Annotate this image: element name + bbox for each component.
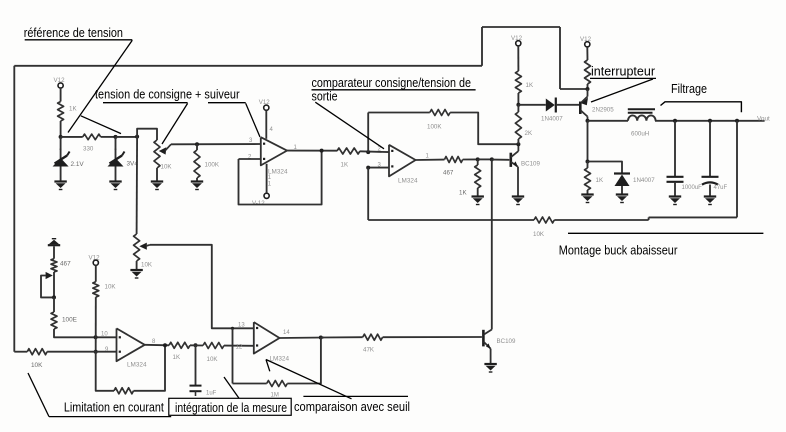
label limitation (64, 401, 164, 415)
wire resistor to emitter node (587, 84, 589, 89)
node R (52, 295, 56, 299)
label Filtrage (671, 82, 707, 96)
node C pot junction (135, 135, 139, 139)
wire hysteresis bottom right (287, 338, 321, 384)
node W hysteresis tap (231, 327, 234, 330)
wire 10K to U4A - (224, 345, 254, 347)
wire U1A output (287, 150, 337, 152)
label sortie (312, 89, 338, 103)
wire D1 to Q2 base (557, 104, 579, 106)
svg-text:1K: 1K (596, 177, 604, 184)
bracket Filtrage (661, 102, 742, 113)
wire V12 to R 1K (60, 88, 62, 102)
wire P2 wiper to U4A + (150, 245, 254, 328)
label Vout (757, 116, 770, 123)
wire 1K to 10K (190, 344, 203, 346)
wire node Q to D2 (588, 162, 623, 174)
resistor 330 (83, 134, 101, 152)
wire feedback to output (134, 345, 166, 391)
svg-text:comparaison avec seuil: comparaison avec seuil (294, 400, 410, 414)
wire 330 to node B (101, 136, 116, 138)
ground 1K pulldown (472, 197, 484, 205)
wire 100K to ground (196, 178, 198, 182)
svg-text:1K: 1K (459, 190, 467, 197)
wire U2A + to sense line (367, 168, 369, 220)
capacitor C2 47uF (702, 177, 728, 191)
wire V12 to 10K (95, 265, 97, 281)
wire D2 to ground (621, 186, 623, 195)
svg-text:1000uF: 1000uF (682, 185, 703, 191)
op-amp U4A LM324 (254, 322, 290, 362)
svg-text:BC109: BC109 (497, 338, 516, 345)
underline interrupteur (590, 77, 656, 79)
node G U2A + input (366, 166, 370, 170)
resistor 1K U1A-U2A (337, 148, 360, 169)
node O cap2 (708, 119, 712, 123)
rheostat 467 (51, 259, 71, 272)
resistor emitter buck (585, 60, 591, 84)
wire switch node to inductor (588, 120, 629, 122)
pin 1 label U2A (426, 154, 430, 160)
wire 47K to Q3 base (383, 336, 482, 338)
pointer reference stem (68, 40, 132, 132)
svg-text:2.1V: 2.1V (71, 161, 85, 168)
diode D2 1N4007 (614, 174, 655, 187)
node P output sense (735, 119, 739, 123)
pin 10 label U3A (101, 332, 108, 338)
ground 1K freewheel (581, 195, 593, 203)
label tension de consigne (95, 88, 240, 102)
wire sense down (736, 121, 738, 218)
underline limitation (49, 416, 171, 418)
transistor Q2 emitter (581, 89, 588, 105)
wire rail to C2 (709, 121, 711, 176)
label reference de tension (24, 26, 123, 40)
wire top rail notch up (481, 27, 483, 66)
pin 3 label U1A (249, 138, 253, 144)
svg-text:LM324: LM324 (270, 356, 290, 363)
resistor 1K integrator (169, 342, 190, 361)
potentiometer P1 10K (154, 140, 172, 171)
ground Q1 emitter (512, 197, 524, 205)
svg-text:Vout: Vout (757, 116, 770, 123)
wire notch to emitter node (560, 88, 588, 90)
svg-text:sortie: sortie (312, 89, 338, 103)
svg-text:1K: 1K (526, 82, 534, 89)
svg-text:47uF: 47uF (714, 185, 728, 191)
node E U1A output (320, 149, 324, 153)
transistor Q3 emitter (484, 342, 491, 364)
wire sense left upper (649, 216, 737, 218)
node X U4A output (319, 336, 323, 340)
wire node I to Q1 base (492, 159, 510, 161)
rheostat wiper arrow (46, 272, 53, 279)
ground P1 (151, 182, 163, 190)
wire node H to 1K (477, 159, 479, 165)
underline suiveur (208, 102, 246, 104)
pin 2 label U1A (248, 155, 252, 161)
ground zener1 (54, 182, 66, 190)
svg-text:100K: 100K (427, 124, 442, 131)
label integration (175, 401, 287, 415)
rheostat loop wire (41, 276, 54, 298)
pointer interrupteur (591, 79, 653, 102)
wire ground to rheostat (53, 246, 55, 258)
ground Q3 emitter (484, 364, 496, 372)
resistor 10K integrator (203, 343, 224, 364)
transistor Q3 collector (484, 330, 492, 335)
node S (94, 335, 98, 339)
transistor Q1 collector (511, 144, 519, 157)
wire 1K to ground (477, 188, 479, 197)
resistor 1K buck drive (515, 71, 534, 93)
pin 12 label U4A (236, 345, 243, 351)
pin 13 label U4A (238, 322, 245, 328)
pointer comparateur (315, 102, 384, 149)
wire node C up-over to pot P1 (137, 129, 157, 140)
label montage buck (559, 243, 678, 257)
svg-text:2N2905: 2N2905 (592, 107, 614, 114)
pin 9 label U3A (105, 347, 109, 353)
wire sense step (648, 217, 650, 220)
svg-text:1M: 1M (271, 393, 279, 399)
wire top rail notch horizontal (482, 26, 560, 28)
resistor 467 (443, 157, 463, 177)
wire node K to 2K (517, 105, 519, 112)
svg-text:600uH: 600uH (631, 131, 649, 138)
wire 10K to U3A - (47, 351, 116, 353)
zener diode 3V4 (108, 149, 139, 168)
wire output rail (655, 120, 765, 122)
wire 1K to U2A - (360, 150, 389, 153)
potentiometer P2 10K (134, 234, 153, 269)
svg-text:comparateur consigne/tension d: comparateur consigne/tension de (312, 76, 472, 90)
pointer comparaison short (266, 360, 270, 372)
box integration (169, 398, 291, 415)
pin 1 label U1A (294, 145, 298, 151)
wire U1A bottom to V-12 (267, 164, 272, 193)
svg-text:12: 12 (236, 345, 243, 351)
wire 2K to node J (517, 139, 519, 144)
wire V12 to emitter resistor (586, 47, 588, 60)
resistor 10K limit (93, 282, 117, 297)
pin 14 label U4A (283, 330, 290, 336)
wire 10K to node S and node T (95, 297, 97, 352)
resistor feedback U3A (114, 388, 134, 394)
wiper arrow P2 (139, 243, 150, 250)
svg-text:10K: 10K (105, 284, 117, 291)
wire hysteresis down (232, 328, 234, 383)
wire 100K to corner (450, 113, 518, 145)
svg-text:V12: V12 (580, 36, 592, 43)
node F U2A - input (366, 150, 370, 154)
underline consigne (103, 102, 188, 104)
svg-text:10K: 10K (31, 362, 43, 369)
node D 100K tap (195, 142, 199, 146)
overline montage buck (568, 232, 763, 234)
wire node H to node I (478, 158, 492, 160)
label comparateur (312, 76, 472, 90)
svg-text:467: 467 (443, 170, 454, 177)
wire U3A feedback (96, 352, 114, 391)
wire zener1 to ground (60, 167, 62, 182)
pointer integration (224, 377, 239, 398)
inductor 600uH core bars (628, 109, 655, 113)
inductor 600uH coil (628, 115, 656, 137)
node I (490, 157, 494, 161)
node U output U3A (163, 343, 167, 347)
pin 2 label U2A (378, 147, 382, 153)
resistor 1K freewheel (585, 168, 604, 190)
power terminal V12 switch (580, 36, 592, 47)
wire top rail notch down to switch emitter (559, 27, 561, 89)
svg-text:V12: V12 (54, 77, 66, 84)
power terminal V12 buck drive (511, 35, 523, 46)
node Q freewheel (586, 160, 590, 164)
wire 100K feedback up (367, 113, 369, 153)
svg-text:V-12: V-12 (252, 200, 265, 207)
resistor 10K input (27, 349, 47, 369)
node A zener1 top (59, 135, 63, 139)
wire P2 to ground (136, 261, 138, 270)
svg-text:100K: 100K (205, 162, 220, 169)
underline reference (25, 39, 133, 41)
wire 1K to node A (60, 121, 62, 137)
capacitor 1uF wire (195, 345, 197, 385)
transistor Q2 2N2905 base bar (580, 102, 614, 115)
power terminal V12 U1A (259, 99, 271, 110)
wire P1 to ground (156, 168, 158, 182)
wire hysteresis bottom left (233, 383, 267, 385)
power terminal V12 limit (89, 255, 101, 266)
power terminal V12 reference (54, 77, 66, 88)
pointer suiveur to U1A (246, 103, 260, 137)
wire sense to U2A + (368, 219, 534, 221)
transistor Q1 BC109 base bar (511, 153, 541, 168)
wire U2A output (416, 159, 445, 161)
svg-text:1K: 1K (173, 354, 181, 361)
wire border to 10K sense (14, 351, 27, 353)
ground C1 (669, 197, 681, 205)
label comparaison (294, 400, 410, 414)
resistor 47K (363, 334, 383, 353)
svg-text:intégration de la mesure: intégration de la mesure (175, 401, 287, 415)
wire node K to D1 (518, 104, 545, 106)
ground C2 (704, 197, 716, 205)
wire zener1 lead (60, 137, 62, 150)
svg-text:13: 13 (238, 322, 245, 328)
op-amp U2A LM324 (389, 145, 418, 185)
resistor 10K sense (533, 217, 554, 238)
node T (94, 350, 98, 354)
ground above rheostat (48, 239, 60, 246)
transistor Q3 BC109 base bar (483, 330, 516, 347)
wire top supply rail (14, 65, 482, 67)
node J collector junction (516, 142, 520, 146)
node N cap1 (673, 119, 677, 123)
svg-text:Filtrage: Filtrage (671, 82, 707, 96)
svg-text:V12: V12 (89, 255, 101, 262)
svg-text:1K: 1K (341, 162, 349, 169)
wire node D to 100K (196, 144, 198, 150)
ground zener2 (109, 182, 121, 190)
pointer comparaison long (266, 360, 352, 399)
resistor 100K to ground (194, 150, 220, 178)
svg-text:2K: 2K (525, 130, 533, 137)
wire U4A output (280, 337, 325, 340)
resistor 2K (515, 112, 533, 139)
node B zener2 top (114, 135, 118, 139)
svg-text:référence de tension: référence de tension (24, 26, 123, 40)
wire C1 to ground (674, 182, 676, 197)
svg-text:1N4007: 1N4007 (633, 177, 655, 184)
diode D1 1N4007 (541, 98, 563, 123)
ground P2 (130, 270, 142, 278)
wire node Q to 1K (587, 162, 589, 169)
svg-text:47K: 47K (363, 347, 375, 354)
svg-text:10K: 10K (141, 262, 153, 269)
wire 100K feedback top (368, 112, 430, 114)
svg-text:V12: V12 (511, 35, 523, 42)
svg-text:1K: 1K (69, 106, 77, 113)
wire node C down to P2 (136, 137, 139, 234)
op-amp U3A LM324 (117, 328, 147, 368)
svg-text:14: 14 (283, 330, 290, 336)
svg-text:330: 330 (83, 146, 94, 153)
node M switch node (586, 119, 590, 123)
wire switch node down (587, 121, 589, 162)
node L emitter (586, 87, 590, 91)
wire node A to resistor 330 (61, 136, 83, 138)
svg-text:467: 467 (60, 261, 71, 268)
ground 100K (191, 182, 203, 190)
op-amp U1A LM324 (261, 137, 288, 175)
svg-text:Limitation en courant: Limitation en courant (64, 401, 164, 415)
wire U3A output (145, 344, 169, 347)
pointer consigne to wiper (162, 103, 188, 144)
svg-text:10K: 10K (533, 231, 545, 238)
wire C2 to ground (709, 185, 711, 197)
wire rheostat to node R (53, 272, 55, 297)
resistor 1M (267, 381, 288, 399)
wire node R to 100E (53, 297, 55, 312)
wire V12 to 1K (517, 46, 519, 71)
label interrupteur (591, 65, 655, 79)
resistor 1K reference (58, 102, 78, 122)
svg-text:10K: 10K (161, 164, 173, 171)
wire node X to 47K (321, 336, 363, 338)
wire 100E to U3A + (54, 329, 117, 337)
wire node B to node C (116, 136, 138, 138)
wire U2A + input (368, 167, 389, 169)
wire sense left (554, 219, 648, 221)
capacitor 1uF (190, 386, 217, 397)
node V integrator (194, 343, 198, 347)
wire 1K to node K (517, 93, 519, 105)
svg-text:10: 10 (101, 332, 108, 338)
svg-text:V12: V12 (259, 99, 271, 106)
zener diode 2.1V (53, 149, 85, 169)
resistor 1K pulldown (459, 165, 481, 197)
svg-text:BC109: BC109 (521, 161, 540, 168)
transistor Q2 collector (580, 110, 587, 121)
svg-text:LM324: LM324 (127, 362, 147, 369)
underline comparateur (312, 89, 476, 91)
wire 467 to node H (463, 158, 478, 160)
wire V12 to U1A top (266, 110, 273, 138)
pin 8 label U3A (152, 339, 156, 345)
wire wiper to op-amp U1A + (171, 143, 261, 145)
wire 1K to ground (587, 190, 589, 195)
pointer limitation (28, 373, 49, 417)
resistor 100K feedback (427, 110, 450, 131)
svg-text:1uF: 1uF (206, 391, 217, 397)
wiper arrow P1 (159, 144, 171, 154)
resistor 100E (51, 312, 77, 329)
ground D2 (616, 195, 628, 203)
power terminal V-12 U1A (252, 193, 269, 207)
node H (476, 157, 480, 161)
wire zener2 to ground (115, 167, 117, 182)
wire U1A feedback loop (239, 151, 322, 205)
wire rail to C1 (674, 121, 676, 176)
svg-text:LM324: LM324 (398, 178, 418, 185)
svg-text:Montage buck abaisseur: Montage buck abaisseur (559, 243, 678, 257)
svg-text:1N4007: 1N4007 (541, 116, 563, 123)
wire zener2 lead (115, 137, 117, 150)
transistor Q1 emitter (511, 161, 518, 196)
node K diode branch (516, 103, 520, 107)
svg-text:10K: 10K (207, 356, 219, 363)
svg-text:tension de consigne + suiveur: tension de consigne + suiveur (95, 88, 240, 102)
capacitor C1 1000uF (667, 177, 703, 191)
overline comparaison (303, 395, 408, 397)
wire Q3 collector up to node I (491, 159, 493, 329)
pointer reference branch (81, 116, 121, 134)
svg-text:100E: 100E (62, 317, 77, 324)
pin 3 label U2A (378, 163, 382, 169)
svg-text:interrupteur: interrupteur (591, 65, 655, 79)
wire U1A - input (239, 158, 261, 160)
wire supply rail left border (13, 66, 15, 352)
